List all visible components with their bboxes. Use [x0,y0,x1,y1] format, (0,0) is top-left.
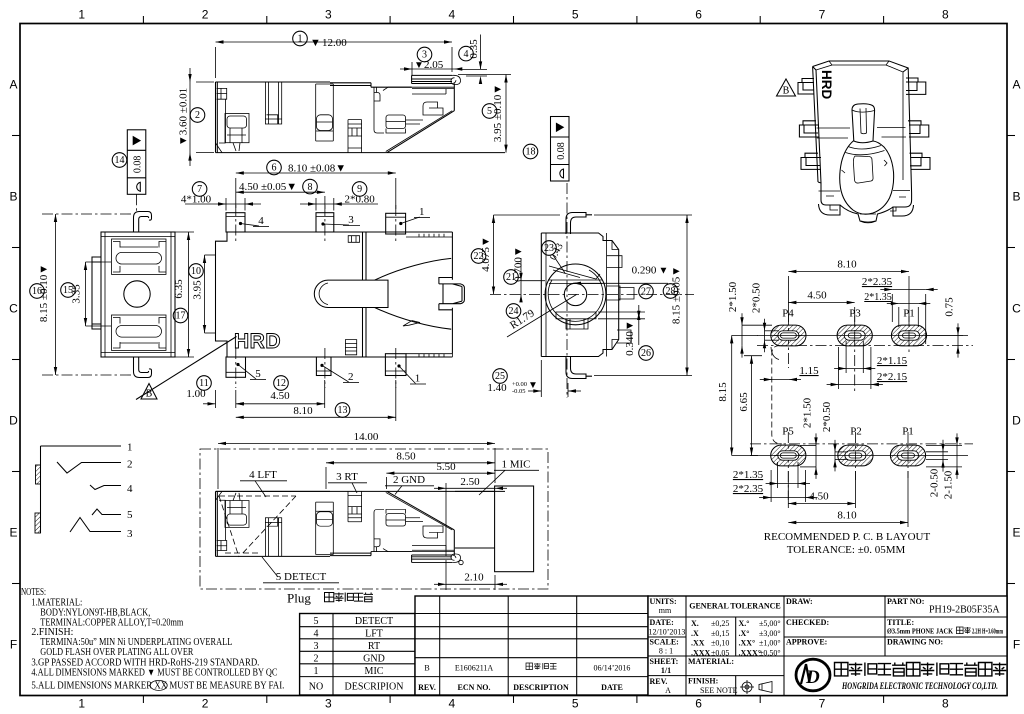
top terminal clip [112,239,167,274]
dim 4.075 (22) [471,215,560,295]
bottom bent pin [134,357,152,378]
svg-text:6: 6 [695,8,702,22]
svg-text:-0.05: -0.05 [512,388,526,395]
dim 3.95 (5) [458,75,511,153]
svg-text:0.700▼: 0.700▼ [513,246,525,282]
pad P3 [837,325,872,346]
internal mid slot [265,82,281,124]
left legs [798,79,821,170]
svg-text:12: 12 [276,378,286,389]
svg-text:1: 1 [78,8,85,22]
horn curves [375,258,452,329]
svg-text:▼: ▼ [528,380,538,391]
svg-text:8.50: 8.50 [396,451,416,463]
left protrusion [92,257,101,329]
top bent pin [134,212,152,233]
svg-text:E: E [9,526,17,540]
svg-text:NO: NO [309,682,323,693]
svg-text:MATERIAL:: MATERIAL: [688,657,734,666]
svg-text:B: B [146,389,153,400]
svg-text:F: F [1013,638,1020,652]
svg-text:2: 2 [127,459,133,471]
svg-text:4.50: 4.50 [807,290,827,302]
svg-text:DATE: DATE [601,683,623,692]
svg-text:D: D [9,414,18,428]
contact hook right end [451,75,461,84]
svg-text:1: 1 [298,34,303,45]
body seams [817,128,911,192]
svg-text:2.2H H=3.60mm: 2.2H H=3.60mm [972,628,1003,636]
dim 0.700 (21) [504,246,545,302]
svg-text:7: 7 [819,697,826,711]
svg-text:0.290: 0.290 [632,265,657,277]
ECN revision table [415,596,648,695]
svg-text:18: 18 [526,147,536,158]
svg-text:E: E [1012,526,1020,540]
company logo [796,659,830,691]
svg-text:13: 13 [338,405,348,416]
internal ladder [348,120,362,153]
svg-text:X.°: X.° [739,619,750,628]
svg-text:1.MATERIAL:: 1.MATERIAL: [31,597,82,608]
svg-text:2-0.50: 2-0.50 [929,468,941,497]
svg-text:2: 2 [202,8,209,22]
bottom terminal clip [112,315,167,350]
svg-text:2: 2 [202,697,209,711]
pad P2 [838,445,873,466]
svg-text:2*2.35: 2*2.35 [862,276,893,288]
svg-text:RECOMMENDED P. C. B LAYOUT: RECOMMENDED P. C. B LAYOUT [764,531,931,543]
dim 3.95 (10) [189,255,215,333]
svg-text:A: A [9,78,17,92]
svg-text:4: 4 [258,215,264,227]
iso body [813,61,912,193]
svg-text:4.ALL DIMENSIONS MARKED ▼ MUS: 4.ALL DIMENSIONS MARKED ▼ MUST BE CONTRO… [31,667,277,678]
svg-text:06/14’2016: 06/14’2016 [594,664,631,673]
svg-text:DRAWING NO:: DRAWING NO: [887,638,943,647]
svg-text:0.340▼: 0.340▼ [624,320,636,356]
svg-text:APPROVE:: APPROVE: [786,638,827,647]
svg-text:TOLERANCE: ±0. 05MM: TOLERANCE: ±0. 05MM [787,544,906,556]
dim 0.43 (23) [542,241,566,273]
big circle [545,264,606,325]
svg-text:+0.00: +0.00 [512,381,527,388]
svg-text:DESCRIPTION: DESCRIPTION [513,683,569,692]
bulb [840,141,894,215]
svg-text:2*1.35: 2*1.35 [733,469,764,481]
pin number labels [236,206,430,385]
terminal 2 [57,462,121,473]
dim 2*0.80 (9) [300,182,378,211]
dim 8.15 (28) [594,215,692,376]
svg-text:0.08: 0.08 [133,156,144,174]
svg-text:DRAW:: DRAW: [786,597,813,606]
dim 0.35 (4) [458,35,487,85]
company chinese name [835,663,848,676]
svg-text:4.50: 4.50 [270,390,290,402]
svg-text:RT: RT [368,641,380,652]
svg-text:▼: ▼ [310,37,321,49]
top hook [566,213,592,235]
svg-text:8.15 ±0.10▼: 8.15 ±0.10▼ [38,264,50,322]
svg-text:1/1: 1/1 [661,666,671,675]
base [818,182,914,216]
svg-text:▼: ▼ [659,266,669,277]
dim R1.79 (24) [506,295,576,338]
svg-text:1: 1 [127,442,133,454]
svg-text:B: B [1012,190,1020,204]
svg-text:C: C [9,302,18,316]
right clip tabs [607,256,634,343]
dim 8.10+-0.08 (6) [236,160,396,209]
svg-text:1: 1 [78,697,85,711]
right legs [906,78,930,169]
bottom bar [556,312,596,319]
svg-text:HONGRIDA ELECTRONIC TECHNOLOGY: HONGRIDA ELECTRONIC TECHNOLOGY CO,LTD. [841,681,998,692]
svg-text:1.15: 1.15 [799,365,819,377]
svg-text:6: 6 [695,697,702,711]
svg-text:26: 26 [641,348,651,359]
svg-text:GND: GND [363,653,385,664]
svg-text:TITLE:: TITLE: [887,618,914,627]
contact schematic [40,446,42,533]
svg-text:1 MIC: 1 MIC [501,459,530,471]
svg-text:3: 3 [127,528,133,540]
svg-text:D: D [1012,414,1021,428]
svg-text:3: 3 [348,214,354,226]
plug handle [495,486,534,572]
svg-text:0.75: 0.75 [944,297,956,317]
svg-text:2.05: 2.05 [424,59,444,71]
svg-text:2*2.15: 2*2.15 [877,371,908,383]
dim 4*1.00 (7) [181,182,261,211]
left side view [101,232,175,357]
svg-text:2-1.50: 2-1.50 [943,470,955,499]
svg-text:P5: P5 [782,426,794,438]
svg-text:.X°: .X° [739,629,750,638]
svg-text:4: 4 [314,629,319,640]
svg-text:B: B [424,664,429,673]
svg-text:GENERAL TOLERANCE: GENERAL TOLERANCE [689,602,781,611]
terminal 4 [90,485,121,490]
svg-text:HRD: HRD [234,330,281,353]
svg-text:DETECT: DETECT [355,616,393,627]
svg-text:8: 8 [942,8,949,22]
svg-text:P2: P2 [850,426,862,438]
terminal 1 [41,445,122,447]
svg-text:±0,15: ±0,15 [711,629,729,638]
svg-text:10: 10 [191,266,201,277]
svg-text:▼: ▼ [414,60,424,71]
svg-text:2.50: 2.50 [460,476,480,488]
svg-text:12/10’2013: 12/10’2013 [649,628,686,637]
svg-text:2: 2 [195,110,200,121]
svg-text:A: A [665,686,671,695]
svg-text:8.10: 8.10 [837,510,857,522]
svg-text:LFT: LFT [365,629,383,640]
svg-text:FINISH:: FINISH: [688,677,718,686]
svg-text:8.10 ±0.08▼: 8.10 ±0.08▼ [288,163,346,175]
svg-text:2*1.15: 2*1.15 [877,355,908,367]
bottom hook [566,357,592,379]
svg-text:8.15: 8.15 [717,382,729,402]
svg-text:Ø3.5mm PHONE JACK: Ø3.5mm PHONE JACK [887,628,953,636]
svg-text:mm: mm [659,606,672,615]
dim 8.10 (13) [236,380,396,421]
svg-text:5: 5 [314,616,319,627]
svg-text:2*1.50: 2*1.50 [727,281,739,312]
dim 12.00 (1) [216,31,453,78]
svg-text:C: C [1012,302,1021,316]
svg-text:12.00: 12.00 [322,37,347,49]
svg-text:E1606211A: E1606211A [455,664,494,673]
svg-text:A: A [1012,78,1020,92]
svg-text:3: 3 [325,697,332,711]
svg-text:▼3.60 ±0.01: ▼3.60 ±0.01 [178,88,190,146]
svg-text:3: 3 [325,8,332,22]
svg-text:27: 27 [641,287,651,298]
svg-text:ECN NO.: ECN NO. [458,683,491,692]
stem [852,104,875,143]
svg-text:0.35: 0.35 [468,39,480,59]
svg-text:1: 1 [415,373,421,385]
dim 0.290 (27) [573,265,668,299]
pins top/bottom [226,213,245,232]
svg-text:±0,10: ±0,10 [711,639,729,648]
pad P4 [771,325,806,346]
dim 4.50 (12) [203,376,325,408]
svg-text:25: 25 [495,371,505,382]
svg-text:4: 4 [448,8,455,22]
dim 3.35 (15) [61,262,111,326]
svg-text:REV.: REV. [418,683,436,692]
shaft tip bump [439,278,465,310]
svg-text:8: 8 [942,697,949,711]
svg-text:MIC: MIC [365,666,384,677]
svg-text:6: 6 [272,163,277,174]
svg-text:SCALE:: SCALE: [650,638,679,647]
svg-text:1: 1 [419,206,425,218]
svg-text:.X: .X [691,629,699,638]
svg-text:Plug: Plug [287,591,311,606]
svg-text:1: 1 [314,666,319,677]
dim 6.35 (17) [173,232,194,357]
dim 3.60 (2) [178,68,215,166]
svg-text:5: 5 [127,509,133,521]
pcb dims bottom [733,397,962,527]
recommended PCB layout [757,334,968,336]
svg-text:±5,00°: ±5,00° [759,619,781,628]
dim 4.50+-0.05 (8) [236,179,325,209]
dim 1.40 (25) [487,360,581,397]
svg-text:6.65: 6.65 [738,392,750,412]
svg-text:2*2.35: 2*2.35 [733,483,764,495]
svg-text:2 GND: 2 GND [393,474,425,486]
top section view [216,75,506,152]
svg-text:3.35: 3.35 [71,284,83,304]
svg-text:0.08: 0.08 [556,142,567,160]
svg-text:2: 2 [314,653,319,664]
svg-text:5: 5 [255,368,261,380]
svg-text:X.: X. [691,619,699,628]
svg-text:4.50: 4.50 [809,491,829,503]
svg-text:PH19-2B05F35A: PH19-2B05F35A [929,605,1000,616]
top section view body outline [216,82,412,153]
svg-text:14.00: 14.00 [354,431,379,443]
svg-text:±0,25: ±0,25 [711,619,729,628]
svg-text:2*1.50: 2*1.50 [802,397,814,428]
dim 2.05 (3) [400,47,462,76]
svg-text:2*1.35: 2*1.35 [864,292,892,303]
pad P1 top [891,325,926,346]
front view body [216,232,453,357]
svg-text:6.35: 6.35 [173,279,185,299]
svg-text:1.40: 1.40 [487,382,507,394]
svg-text:4.50 ±0.05▼: 4.50 ±0.05▼ [239,181,297,193]
terminal 5 [92,509,121,515]
svg-text:±0,50°: ±0,50° [759,648,781,657]
svg-text:GOLD FLASH OVER PLATING ALL OV: GOLD FLASH OVER PLATING ALL OVER [40,647,193,658]
svg-text:5 DETECT: 5 DETECT [276,571,327,583]
svg-text:8.15 ±0.05▼: 8.15 ±0.05▼ [671,266,683,324]
pad P5 [771,445,806,466]
svg-text:SEE NOTE: SEE NOTE [700,686,738,695]
svg-text:3.95 ±0.10▼: 3.95 ±0.10▼ [492,84,504,142]
svg-text:3: 3 [314,641,319,652]
svg-text:8.10: 8.10 [837,259,857,271]
svg-text:8: 8 [308,182,313,193]
svg-text:.XX: .XX [691,639,705,648]
svg-text:4: 4 [127,483,133,495]
top contact spring [548,266,602,284]
svg-text:B: B [9,190,17,204]
internal pocket left [217,88,227,143]
svg-text:8 : 1: 8 : 1 [659,647,673,656]
svg-text:4.075▼: 4.075▼ [480,236,492,272]
svg-text:B: B [783,86,790,97]
pcb dims top [727,259,963,358]
center hole [124,281,150,307]
svg-text:DATE:: DATE: [650,618,674,627]
svg-text:2*0.50: 2*0.50 [751,282,763,313]
svg-text:2: 2 [348,371,354,383]
pcb dims mid [717,335,908,455]
svg-text:P3: P3 [849,308,861,320]
datum flag 14 [127,130,146,195]
svg-text:17: 17 [176,311,186,322]
terminal 3 [70,518,121,533]
svg-text:PART NO:: PART NO: [887,597,924,606]
datum B triangle and leader [136,337,237,401]
svg-text:14: 14 [115,155,125,166]
title block [648,596,1007,696]
svg-text:REV.: REV. [650,677,668,686]
svg-text:2*0.50: 2*0.50 [821,401,833,432]
svg-text:2.10: 2.10 [464,572,484,584]
svg-text:4: 4 [448,697,455,711]
svg-text:8.10: 8.10 [293,405,313,417]
plug mating diagram [200,449,548,589]
warning triangle B [777,79,796,96]
svg-text:.XX°: .XX° [739,639,756,648]
svg-text:P1: P1 [902,426,914,438]
dim 8.15 (16) [30,214,58,375]
svg-text:UNITS:: UNITS: [650,597,677,606]
svg-text:7: 7 [819,8,826,22]
svg-text:±1,00°: ±1,00° [759,639,781,648]
datum flag 18 [551,117,570,182]
svg-text:.XXX°: .XXX° [739,648,762,657]
svg-text:5: 5 [487,106,492,117]
pin description table [300,614,415,696]
svg-text:3 RT: 3 RT [336,471,358,483]
pad P1 bottom [890,445,925,466]
dim 0.340 (26) [598,305,653,360]
svg-text:CHECKED:: CHECKED: [786,618,829,627]
svg-text:F: F [10,638,17,652]
svg-text:1.00: 1.00 [186,388,206,400]
svg-text:±3,00°: ±3,00° [759,629,781,638]
svg-text:5.50: 5.50 [436,461,456,473]
svg-text:4 LFT: 4 LFT [249,469,277,481]
internal step profile [374,87,384,133]
center plunger [314,280,388,307]
svg-text:HRD: HRD [819,70,834,99]
svg-text:DESCRIPION: DESCRIPION [345,682,404,693]
circular side view [541,233,618,357]
svg-text:5: 5 [572,8,579,22]
svg-text:SHEET:: SHEET: [650,657,679,666]
svg-text:3.95: 3.95 [192,280,204,300]
svg-text:5: 5 [572,697,579,711]
